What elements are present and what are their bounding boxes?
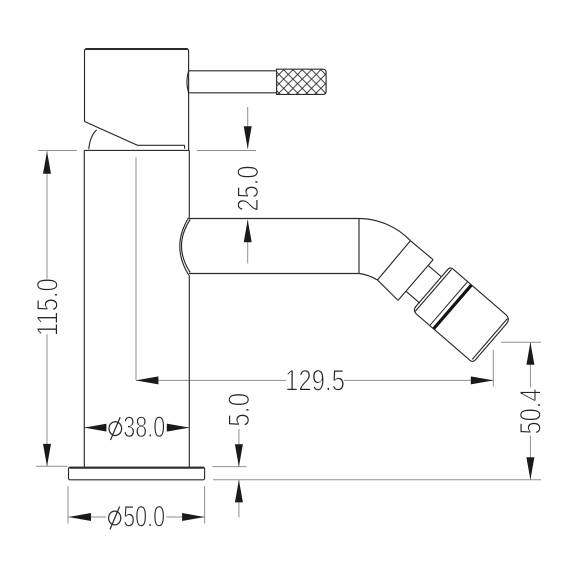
arrow 50.4 down	[526, 457, 534, 480]
mixer head bottom step	[184, 145, 186, 148]
arrow 115.0 down	[43, 444, 51, 467]
svg-text:50.0: 50.0	[123, 501, 165, 534]
base plate outline	[69, 467, 205, 480]
dimension text 50.4	[515, 388, 548, 436]
handle lever bottom edge	[189, 92, 277, 94]
svg-text:5.0: 5.0	[223, 393, 256, 427]
svg-text:50.4: 50.4	[515, 389, 548, 435]
base plate top edge	[70, 467, 204, 469]
dimension line 50.4	[529, 342, 531, 480]
extension line diameter 50.0 right	[204, 486, 206, 524]
extension line 129.5 right	[492, 350, 494, 387]
arrow diameter 50.0 right	[182, 513, 205, 521]
spout bend outer curve	[359, 219, 433, 260]
extension line 115.0 bottom	[36, 465, 68, 467]
spout bend joint line	[358, 219, 360, 274]
extension line 115.0 top	[38, 150, 77, 152]
dimension line 25.0 lower	[247, 220, 249, 263]
column top edge	[84, 149, 189, 151]
arrow 5.0 up	[235, 480, 243, 503]
column left edge	[83, 150, 85, 467]
dimension line diameter 38.0	[84, 427, 189, 429]
spout joint outer arc	[180, 218, 189, 276]
aerator face seam line	[472, 319, 507, 360]
handle knurled grip outline	[277, 69, 327, 94]
extension line 5.0 top	[213, 466, 247, 468]
svg-text:38.0: 38.0	[123, 411, 165, 444]
mixer head body outline	[85, 49, 189, 151]
arrow 25.0 up	[244, 220, 252, 243]
spout bottom edge	[189, 273, 359, 275]
arrow 115.0 up	[43, 151, 51, 174]
dimension line 115.0	[46, 151, 48, 466]
arrow 50.4 up	[526, 342, 534, 365]
arrow 5.0 down	[235, 444, 243, 467]
arrow 129.5 right	[471, 376, 494, 384]
mixer head underside arc	[89, 130, 97, 149]
handle lever top edge	[189, 70, 277, 72]
dimension text 115.0	[31, 278, 64, 336]
aerator body outline	[412, 267, 510, 363]
dimension text diameter 38.0	[106, 411, 166, 444]
dimension line diameter 50.0	[69, 516, 205, 518]
aerator dark ring band	[433, 284, 473, 330]
centerline horizontal right of head	[197, 150, 256, 152]
aerator nipple upper edge	[428, 265, 441, 277]
spout bend seam 1	[378, 241, 411, 280]
dimension text 129.5	[285, 365, 345, 398]
column right edge upper	[188, 150, 190, 217]
dimension text 25.0	[232, 166, 265, 212]
arrow 25.0 down	[244, 126, 252, 149]
extension line base bottom shared 5.0 / 50.4	[213, 479, 541, 481]
dimension line 5.0 upper	[238, 429, 240, 467]
arrow 129.5 left	[136, 376, 159, 384]
dimension line 129.5	[136, 379, 493, 381]
dimension text 5.0	[223, 393, 256, 427]
svg-text:115.0: 115.0	[31, 278, 64, 336]
aerator inlet seam line	[415, 269, 451, 311]
aerator nipple lower edge	[406, 291, 420, 303]
arrow diameter 38.0 left	[84, 424, 107, 432]
arrow diameter 38.0 right	[167, 424, 190, 432]
column right edge lower	[188, 275, 190, 467]
aerator ring thin line	[430, 282, 467, 325]
dimension line 25.0 upper	[247, 107, 249, 149]
mixer head top edge	[86, 48, 188, 50]
spout bend seam 2	[398, 260, 433, 301]
spout joint inner arc	[182, 220, 191, 273]
extension line diameter 50.0 left	[67, 486, 69, 524]
extension line 50.4 top	[501, 341, 541, 343]
svg-text:25.0: 25.0	[232, 166, 265, 212]
spout top edge	[189, 218, 359, 220]
handle joint arc	[187, 71, 189, 93]
svg-text:129.5: 129.5	[285, 365, 345, 398]
mixer head bottom cut	[85, 122, 185, 146]
dimension text diameter 50.0	[106, 501, 166, 534]
dimension line 5.0 lower	[238, 480, 240, 518]
spout bend inner curve	[359, 274, 398, 301]
centerline vertical column axis	[135, 157, 137, 380]
arrow diameter 50.0 left	[69, 513, 92, 521]
handle knurl crosshatch	[277, 69, 327, 94]
